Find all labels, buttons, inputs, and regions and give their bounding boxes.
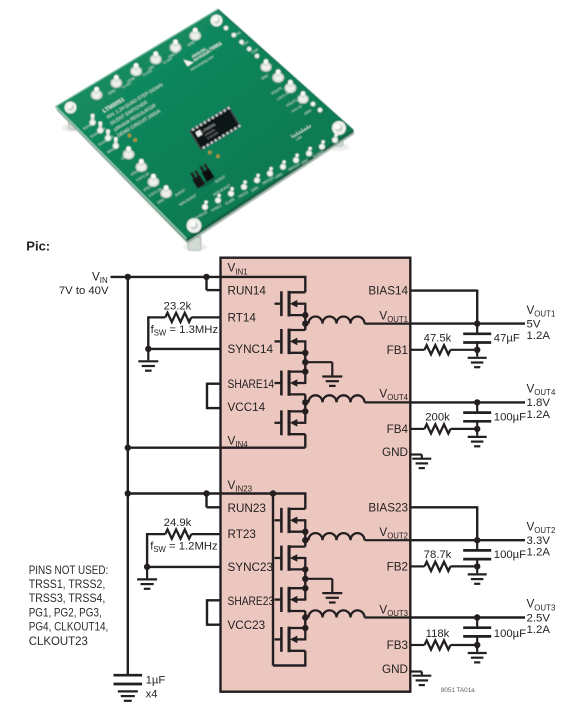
ground GND pin 23 xyxy=(412,675,431,677)
transistor Q7 xyxy=(275,587,306,613)
svg-text:TRSS1, TRSS2,: TRSS1, TRSS2, xyxy=(29,577,106,591)
transistor Q4 xyxy=(275,410,306,436)
node SW4 source junction xyxy=(302,408,308,414)
label VOUT2 3.3V 1.2A xyxy=(527,520,556,558)
svg-text:Pic:: Pic: xyxy=(26,238,50,253)
svg-text:GND: GND xyxy=(382,446,408,459)
svg-text:100µF: 100µF xyxy=(494,412,526,424)
node VIN4 rail junction xyxy=(125,445,131,451)
node Q7 source junction xyxy=(302,585,308,591)
inductor L1 xyxy=(305,317,410,324)
svg-text:200k: 200k xyxy=(425,412,450,424)
ground internal 23 xyxy=(305,579,342,603)
svg-text:PINS NOT USED:: PINS NOT USED: xyxy=(29,563,109,577)
wire internal ground node 14 xyxy=(304,353,306,372)
wire VIN rail xyxy=(127,277,129,676)
wire VIN4 line xyxy=(128,447,305,449)
svg-text:7V to 40V: 7V to 40V xyxy=(59,285,109,297)
svg-text:FB2: FB2 xyxy=(387,560,408,573)
mounting holes xyxy=(211,15,223,27)
resistor FB1 47.5k xyxy=(425,345,451,354)
node RUN23 branch xyxy=(203,490,209,496)
node SW4 inductor junction xyxy=(302,399,308,405)
svg-text:23.2k: 23.2k xyxy=(164,301,192,313)
wire SW1 node chain xyxy=(304,315,306,330)
svg-text:1.2A: 1.2A xyxy=(527,624,551,636)
svg-text:RT14: RT14 xyxy=(228,311,257,324)
ground at SYNC14 xyxy=(138,349,158,371)
svg-text:78.7k: 78.7k xyxy=(424,549,452,561)
svg-text:GND: GND xyxy=(382,663,408,676)
label 1uF x4 xyxy=(146,674,166,700)
wire VOUT4 output line xyxy=(410,401,525,403)
node SYNC23 ground junction xyxy=(144,564,150,570)
node VIN rail junction xyxy=(125,274,131,280)
svg-text:1.2A: 1.2A xyxy=(527,409,551,421)
node SW2 source junction xyxy=(302,529,308,535)
node SW2 inductor junction xyxy=(302,537,308,543)
node SW1 inductor junction xyxy=(302,320,308,326)
node VIN23 rail junction xyxy=(125,490,131,496)
pads bottom-right edge xyxy=(202,204,208,210)
wire BIAS2 to VOUT node xyxy=(410,506,477,540)
node ground branch 14 xyxy=(302,359,308,365)
wire SYNC23 line xyxy=(147,566,220,568)
node VOUT1 junction xyxy=(474,320,480,326)
gold vias xyxy=(208,151,211,154)
svg-text:x4: x4 xyxy=(146,688,158,700)
capacitor C5 1uF x4 xyxy=(114,675,143,701)
node SYNC14 ground junction xyxy=(145,346,151,352)
svg-text:1.8V: 1.8V xyxy=(527,397,551,409)
label PINS NOT USED xyxy=(29,563,109,648)
capacitor C VOUT1 47µF xyxy=(463,324,491,350)
resistor FB3 118k xyxy=(425,640,451,649)
wire SYNC14 line xyxy=(148,348,220,350)
wire SW4 node chain xyxy=(304,394,306,411)
svg-text:SYNC23: SYNC23 xyxy=(228,561,273,574)
wire SW3 node chain xyxy=(304,611,306,628)
svg-text:3.3V: 3.3V xyxy=(527,535,551,547)
svg-text:FB3: FB3 xyxy=(387,639,408,652)
resistor RT14 23.2k xyxy=(148,313,220,322)
transistor Q1 xyxy=(275,291,306,317)
transistor Q2 xyxy=(275,329,306,355)
wire SW2 node chain xyxy=(304,532,306,547)
label VOUT4 1.8V 1.2A xyxy=(527,383,556,421)
wire VIN1 internal to Q1 drain xyxy=(304,276,306,293)
node FB4 junction xyxy=(474,426,480,432)
transistor Q5 xyxy=(275,508,306,534)
wire FB3 line xyxy=(410,644,477,646)
ground below C VOUT2 xyxy=(468,566,487,583)
jumper headers xyxy=(188,162,217,190)
svg-text:VCC14: VCC14 xyxy=(228,401,266,414)
PCB photo: LTM8051 demo board xyxy=(56,10,354,252)
op-amp U1 LTM8051 module body xyxy=(221,258,411,692)
wire VIN23 line xyxy=(128,492,305,494)
wire GND pin 23 xyxy=(410,672,422,676)
node Q2 source junction xyxy=(302,350,308,356)
resistor FB2 78.7k xyxy=(425,562,451,571)
IC module xyxy=(189,106,241,150)
svg-text:CLKOUT23: CLKOUT23 xyxy=(29,634,88,648)
svg-text:RT23: RT23 xyxy=(228,528,256,541)
node RUN14 branch xyxy=(203,274,209,280)
capacitor C VOUT3 100µF xyxy=(463,618,491,646)
svg-text:47µF: 47µF xyxy=(494,333,520,345)
node SW3 inductor junction xyxy=(302,614,308,620)
wire RUN23 connection xyxy=(207,494,221,508)
node SW3 source junction xyxy=(302,625,308,631)
wire Q8 drain to VIN23 rail xyxy=(304,651,306,667)
wire Q4 drain to VIN4 xyxy=(304,434,306,448)
wire RT14 to SYNC14 xyxy=(147,316,149,349)
node FB2 junction xyxy=(474,563,480,569)
svg-text:24.9k: 24.9k xyxy=(164,517,192,529)
svg-text:RUN14: RUN14 xyxy=(228,285,267,298)
wire BIAS1 to VOUT node xyxy=(410,290,477,324)
wire GND pin 14 xyxy=(410,455,422,459)
transistor Q3 xyxy=(275,370,306,396)
wire SHARE23 VCC23 bracket xyxy=(207,599,221,626)
inductor L2 xyxy=(305,533,410,540)
wire FB4 line xyxy=(410,428,477,430)
ground GND pin 14 xyxy=(412,458,431,460)
svg-text:RUN23: RUN23 xyxy=(228,502,266,515)
turrets top-left edge xyxy=(189,31,201,41)
svg-text:47.5k: 47.5k xyxy=(424,333,452,345)
silkscreen ADI logo xyxy=(183,38,226,72)
transistor Q6 xyxy=(275,545,306,571)
capacitor C VOUT4 100µF xyxy=(463,402,491,429)
ground below C VOUT3 xyxy=(468,645,487,662)
resistor RT23 24.9k xyxy=(147,530,220,539)
wire internal ground node 23 xyxy=(304,569,306,588)
svg-text:5V: 5V xyxy=(527,318,541,330)
inductor L4 xyxy=(305,395,410,402)
svg-text:100µF: 100µF xyxy=(494,549,526,561)
wire VIN input line xyxy=(111,276,306,278)
label VOUT3 2.5V 1.2A xyxy=(527,598,556,636)
node SW1 source junction xyxy=(302,312,308,318)
wire VOUT1 output line xyxy=(410,322,525,324)
svg-text:1.2A: 1.2A xyxy=(527,330,551,342)
label VOUT1 5V 1.2A xyxy=(527,304,556,342)
silkscreen ruler xyxy=(291,124,314,143)
wire SHARE14 VCC14 bracket xyxy=(207,383,221,410)
svg-text:PG1, PG2, PG3,: PG1, PG2, PG3, xyxy=(29,605,102,619)
svg-text:TRSS3, TRSS4,: TRSS3, TRSS4, xyxy=(29,591,106,605)
wire RT23 to SYNC23 xyxy=(146,533,148,567)
svg-text:118k: 118k xyxy=(426,628,450,640)
wire VOUT3 output line xyxy=(410,616,525,618)
svg-text:SHARE14: SHARE14 xyxy=(228,378,275,391)
transistor Q8 xyxy=(275,627,306,653)
node VOUT4 junction xyxy=(474,399,480,405)
svg-text:SHARE23: SHARE23 xyxy=(228,595,275,608)
wire FB1 line xyxy=(410,349,477,351)
ground below C VOUT4 xyxy=(468,429,487,446)
ground below C VOUT1 xyxy=(468,350,487,367)
node ground branch 23 xyxy=(302,576,308,582)
wire RUN14 connection xyxy=(207,277,221,290)
capacitor C VOUT2 100µF xyxy=(463,540,491,566)
node VIN23 internal branch xyxy=(270,490,276,496)
node Q3 source junction xyxy=(302,368,308,374)
svg-text:8051 TA01a: 8051 TA01a xyxy=(441,687,475,694)
svg-text:BIAS14: BIAS14 xyxy=(368,285,408,298)
node VOUT3 junction xyxy=(474,614,480,620)
svg-text:1µF: 1µF xyxy=(146,674,166,686)
svg-text:FB4: FB4 xyxy=(387,423,409,436)
node FB1 junction xyxy=(474,347,480,353)
svg-text:1.2A: 1.2A xyxy=(527,547,551,559)
label VIN 7V to 40V xyxy=(59,271,109,297)
wire VOUT2 output line xyxy=(410,539,525,541)
svg-text:FB1: FB1 xyxy=(387,344,408,357)
ground internal 14 xyxy=(305,362,342,386)
wire FB2 line xyxy=(410,565,477,567)
wire VIN23 internal to Q5 drain xyxy=(304,492,306,509)
svg-text:100µF: 100µF xyxy=(494,628,526,640)
svg-text:2.5V: 2.5V xyxy=(527,612,551,624)
wire VIN23 drop rail xyxy=(273,494,305,666)
node VOUT2 junction xyxy=(474,537,480,543)
svg-text:BIAS23: BIAS23 xyxy=(368,501,408,514)
node FB3 junction xyxy=(474,642,480,648)
svg-text:SYNC14: SYNC14 xyxy=(228,343,274,356)
pads top-right edge xyxy=(224,26,229,31)
inductor L3 xyxy=(305,610,410,617)
ground at SYNC23 xyxy=(137,567,157,589)
resistor FB4 200k xyxy=(425,424,451,433)
svg-text:VCC23: VCC23 xyxy=(228,619,266,632)
svg-text:PG4, CLKOUT14,: PG4, CLKOUT14, xyxy=(29,620,109,634)
turrets lower-left edge xyxy=(89,119,95,125)
node Q6 source junction xyxy=(302,566,308,572)
